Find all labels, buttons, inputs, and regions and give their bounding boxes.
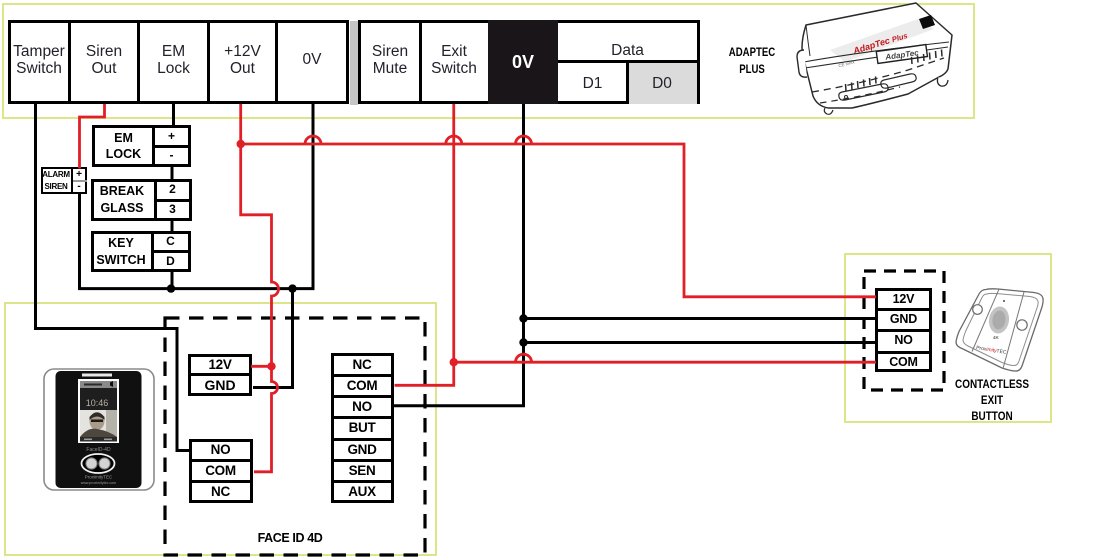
wire exit switch down to face COM col [395,104,454,385]
label EM LOCK [95,128,152,164]
KEY SWITCH box [91,231,191,273]
screen status text [84,384,102,386]
label SIREN [41,181,71,192]
terminal NO col [334,399,390,415]
exit screw right [1017,320,1027,330]
junction exit switch net [450,358,458,366]
12V GND divider [188,373,252,376]
label ADAPTEC PLUS [716,44,788,78]
adaptec dashed seam 2 [820,87,900,103]
adaptec silhouette [802,3,952,108]
face device lens right [99,458,110,469]
gray separator bar [350,21,358,105]
terminal strip 2 frame [358,20,700,104]
column divider 6 [331,480,394,483]
junction face 12V [267,362,275,370]
terminal NO face [192,441,249,457]
BREAK GLASS terminal 2 [157,181,188,197]
exit button plate [956,289,1043,371]
face id terminal block 12V GND [188,354,252,396]
adaptec left ear [797,50,807,77]
column divider 4 [331,438,394,441]
photo hair [90,413,105,421]
KEY SWITCH column divider [151,231,154,273]
terminal COM exit [878,354,929,369]
terminal Exit Switch [422,21,486,99]
exit center strip left line [972,289,999,351]
data header underline [558,60,697,63]
wire 12v out down to face 12V and COM [241,104,279,472]
wire junction to exit COM [454,361,876,364]
face device lens oval [82,454,115,473]
dashed enclosure FACE ID 4D [165,318,425,555]
adaptec vent row right [912,50,943,65]
face device top slot [82,374,112,377]
EM LOCK terminal - [155,147,188,163]
column divider 3 [331,416,394,419]
ALARM SIREN cell divider [73,180,87,182]
terminal OV strip1 [278,21,346,99]
terminal EM Lock [140,21,207,99]
adaptec seam line 2 [805,47,948,68]
adaptec left edge line [806,25,810,56]
terminal D0 [627,63,697,104]
photo glasses [91,420,103,423]
wire black OV cell down to face NO col [394,104,524,406]
face id relay block NO COM NC [189,439,253,504]
wire OV bus to alarm siren minus [80,104,314,289]
BREAK GLASS box [91,179,192,221]
EM LOCK column divider [152,125,155,167]
screen bottom bar [80,437,117,442]
adaptec sticker [830,19,934,62]
exit button terminal block [875,288,932,372]
adaptec plus device sketch [780,0,980,120]
ALARM SIREN terminal - [73,180,85,192]
hop 12v bus over ov wire [305,136,321,144]
face id outer highlight box [4,302,437,556]
hop 12v bus over black ov wire [516,136,532,144]
ALARM SIREN terminal + [73,168,85,180]
wire em lock minus to break glass 2 [171,164,174,181]
D1 D0 divider [626,62,629,104]
wire tamper switch to face NO [36,104,191,451]
hop com wire over black ov wire [516,354,532,362]
column divider 5 [331,459,394,462]
terminal OV black cell [488,20,558,104]
dashed enclosure exit button [864,271,944,390]
terminal Siren Mute [361,21,419,99]
exit divider 1 [875,308,932,311]
strip1 divider d [275,20,278,104]
label FACE ID 4D [240,530,340,546]
junction exit no [519,338,527,346]
ALARM SIREN box [41,167,88,194]
KEY SWITCH terminal C [154,233,187,248]
exit fingerprint core [991,310,1007,331]
controller outer highlight box [2,3,975,119]
terminal NC col [334,356,390,372]
exit fingerprint smudge [987,305,1011,335]
terminal COM col [334,377,390,393]
adaptec seam line 1 [804,42,949,62]
terminal GND face [192,376,248,393]
strip1 divider b [137,20,140,104]
screen status bar [80,381,117,388]
KEY SWITCH row divider [154,250,191,253]
photo shade right [106,410,117,437]
junction 12v distribution [237,140,245,148]
terminal Tamper Switch [9,21,69,99]
terminal Siren Out [71,21,137,99]
exit plate inner border [963,293,1038,365]
wire siren out to alarm siren plus [80,104,105,169]
wire stub face 12V terminal [251,365,272,368]
exit button outer highlight box [844,253,1052,423]
exit sensor dot [1003,300,1005,302]
adaptec foot right [937,77,948,86]
EM LOCK row divider [155,145,191,148]
face device screen [79,380,118,442]
photo face [90,412,105,430]
terminal 12V exit [878,291,929,306]
BREAK GLASS row divider [157,199,192,202]
terminal GND col [334,441,390,457]
junction exit gnd [519,314,527,322]
face device plate [44,369,154,490]
terminal Data header [558,40,697,61]
strip1 divider c [207,20,210,104]
terminal +12V Out [210,21,275,99]
hop 12v bus over exit switch wire [446,136,462,144]
terminal GND exit [878,312,929,327]
label BREAK GLASS [94,182,151,218]
label KEY SWITCH [94,234,149,270]
wire key switch D to ov bus [171,270,174,289]
adaptec foot left [824,108,833,114]
junction gnd feeder [288,284,296,292]
wire to exit NO [524,341,877,344]
terminal D1 [558,63,627,104]
adaptec capsule slot right [881,74,916,88]
photo shoulders [80,429,117,437]
wire ov bus to face GND [253,289,293,388]
adaptec screw detail [845,96,848,99]
face device lens left [86,458,97,469]
wire to exit GND [524,317,877,320]
label ALARM [41,169,71,180]
strip2 divider a [419,20,422,104]
ALARM SIREN divider [71,167,73,194]
adaptec vent row left [846,77,877,92]
face device black panel [56,371,142,488]
face reader device sketch [40,365,158,495]
adaptec boxed label [876,45,927,64]
wire 12v distribution to exit 12V [241,144,876,297]
wire break glass 3 to key switch C [171,218,174,233]
exit screw left [973,305,983,315]
adaptec capsule slot left [839,84,888,100]
terminal NO exit [878,333,929,348]
column divider 2 [331,395,394,398]
terminal SEN col [334,462,390,478]
exit divider 3 [875,351,932,354]
EM LOCK box [92,125,191,167]
terminal AUX col [334,484,390,500]
label CONTACTLESS EXIT BUTTON [951,376,1034,424]
terminal strip 1 frame [8,20,349,104]
screen bottom buttons [84,439,92,441]
adaptec dashed seam 1 [812,58,944,92]
terminal BUT col [334,420,390,436]
strip1 divider a [68,20,71,104]
exit divider 2 [875,329,932,332]
COM NC divider [189,480,253,483]
column divider 1 [331,374,394,377]
junction key switch D [167,284,175,292]
terminal 12V face [192,356,248,372]
BREAK GLASS terminal 3 [157,201,188,217]
EM LOCK terminal + [155,127,188,144]
terminal NC face [192,483,249,499]
screen photo [80,410,117,437]
face id connector column [331,353,394,503]
wire em lock feed [172,104,175,127]
terminal COM face [192,462,249,478]
KEY SWITCH terminal D [154,253,187,269]
contactless exit button sketch [948,282,1053,380]
BREAK GLASS column divider [154,179,157,221]
screen speaker icon [110,381,113,387]
adaptec connector block [919,15,935,29]
exit center strip right line [1003,292,1024,369]
NO COM divider [189,459,253,462]
